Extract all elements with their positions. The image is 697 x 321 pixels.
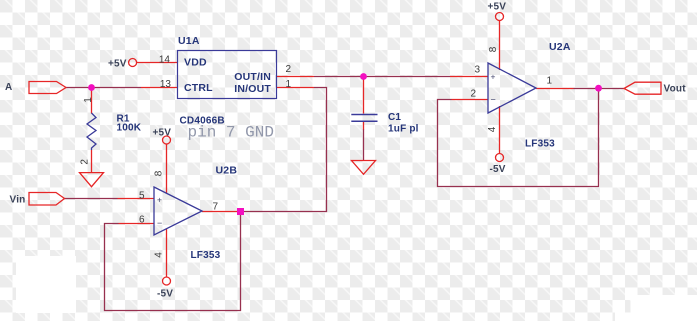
svg-text:13: 13 — [160, 79, 172, 90]
svg-text:14: 14 — [159, 55, 171, 66]
svg-text:U1A: U1A — [178, 35, 200, 47]
power symbol -5V at U2B — [163, 277, 171, 285]
pin stub U2A pin1 output — [536, 88, 574, 90]
svg-text:-5V: -5V — [157, 289, 173, 300]
power symbol +5V at U2A — [496, 13, 504, 21]
port Vin — [29, 193, 65, 206]
pin stub U1A pin1 — [277, 87, 315, 89]
op-amp U2B — [154, 187, 202, 235]
svg-text:C1: C1 — [388, 112, 401, 123]
switch U1A body — [178, 51, 277, 99]
pin stub U1A pin14 — [137, 62, 178, 64]
svg-text:−: − — [491, 95, 496, 105]
wire top net U1A pin2 to U2A pin3 — [314, 76, 450, 78]
svg-text:3: 3 — [475, 65, 481, 76]
svg-text:+: + — [491, 72, 496, 82]
svg-text:A: A — [5, 82, 12, 93]
wire capacitor top lead — [363, 77, 365, 114]
svg-text:5: 5 — [139, 191, 145, 202]
svg-text:Vin: Vin — [10, 195, 26, 206]
port Vout — [624, 82, 661, 94]
wire U2A output net to Vout — [574, 88, 625, 90]
ground symbol below C1 — [352, 161, 376, 175]
svg-text:Vout: Vout — [664, 84, 687, 95]
svg-text:pin 7 GND: pin 7 GND — [188, 124, 274, 142]
svg-text:100K: 100K — [117, 123, 142, 134]
svg-text:4: 4 — [154, 252, 165, 258]
svg-text:OUT/IN: OUT/IN — [234, 71, 271, 83]
power symbol -5V at U2A — [496, 154, 504, 162]
pin stub U1A pin13 — [141, 87, 178, 89]
svg-text:−: − — [157, 218, 162, 228]
svg-text:U2A: U2A — [549, 41, 571, 53]
wire U2A feedback loop — [438, 88, 599, 187]
wire R1 top lead — [91, 88, 93, 114]
svg-text:7: 7 — [213, 202, 219, 213]
svg-text:2: 2 — [471, 89, 477, 100]
junction node C1 — [360, 73, 367, 80]
svg-text:2: 2 — [286, 64, 292, 75]
wire U2B feedback loop — [105, 212, 241, 311]
white patch — [16, 256, 76, 313]
svg-text:U2B: U2B — [216, 165, 238, 177]
svg-text:-5V: -5V — [490, 164, 506, 175]
svg-text:LF353: LF353 — [525, 139, 555, 150]
svg-text:+5V: +5V — [153, 128, 172, 139]
wire Vin net — [64, 198, 118, 200]
svg-text:8: 8 — [488, 46, 499, 52]
svg-text:6: 6 — [139, 215, 145, 226]
svg-text:1uF pl: 1uF pl — [388, 124, 419, 135]
wire capacitor bottom to ground — [363, 129, 365, 161]
pin stub U1A pin2 — [277, 76, 315, 78]
svg-text:LF353: LF353 — [191, 250, 221, 261]
wire U2B pin8 power — [166, 144, 168, 193]
svg-text:+5V: +5V — [488, 2, 507, 13]
capacitor C1 plates — [351, 115, 377, 122]
port A — [29, 82, 66, 94]
svg-text:2: 2 — [80, 159, 91, 165]
junction node A-R1 — [88, 84, 95, 91]
wire U2B pin4 power — [166, 229, 168, 277]
svg-text:8: 8 — [154, 170, 165, 176]
pin stub U2B pin6 — [119, 223, 155, 225]
power symbol +5V at U2B — [163, 136, 171, 144]
svg-text:4: 4 — [487, 126, 498, 132]
wire R1 bottom lead — [91, 150, 93, 173]
resistor R1 — [87, 113, 96, 150]
svg-text:VDD: VDD — [184, 57, 207, 69]
wire capacitor bottom stub — [363, 122, 365, 130]
svg-text:1: 1 — [286, 79, 292, 90]
svg-text:+5V: +5V — [108, 59, 127, 70]
wire U1A pin1 down to U2B output net — [242, 88, 327, 212]
white corner bottom-right — [631, 295, 697, 321]
junction node U2B output — [237, 208, 244, 215]
svg-text:+: + — [157, 195, 162, 205]
wire U2A pin4 power — [499, 106, 501, 154]
op-amp U2A — [488, 63, 536, 113]
svg-text:IN/OUT: IN/OUT — [234, 83, 271, 95]
svg-text:1: 1 — [83, 97, 94, 103]
svg-text:1: 1 — [547, 76, 553, 87]
wire net A to CTRL — [66, 87, 141, 89]
pin stub U2B pin7 output — [202, 211, 240, 213]
pin stub U2A pin2 — [452, 99, 489, 101]
pin stub U2A pin3 — [450, 76, 488, 78]
power symbol +5V at U1A — [129, 59, 137, 67]
svg-text:CTRL: CTRL — [184, 82, 213, 94]
pin stub U2B pin5 — [118, 198, 155, 200]
junction node Vout — [595, 85, 602, 92]
wire U2A pin8 power — [499, 21, 501, 70]
ground symbol below R1 — [80, 173, 104, 187]
